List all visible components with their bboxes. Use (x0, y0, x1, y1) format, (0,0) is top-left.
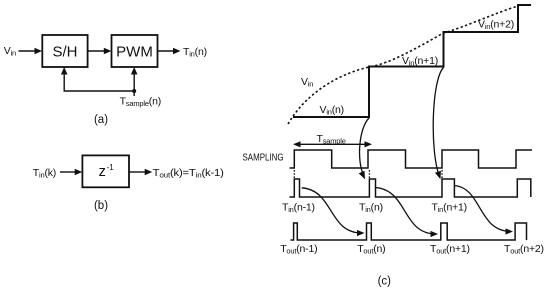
svg-text:Tin(n): Tin(n) (183, 46, 207, 59)
svg-text:(b): (b) (94, 200, 108, 212)
svg-text:Tout(n-1): Tout(n-1) (280, 243, 317, 256)
svg-text:Vin(n+1): Vin(n+1) (402, 55, 438, 68)
svg-text:Tin(n): Tin(n) (359, 202, 383, 215)
svg-text:Tin(n-1): Tin(n-1) (282, 202, 315, 215)
svg-text:Tin(n+1): Tin(n+1) (432, 202, 467, 215)
svg-text:PWM: PWM (116, 44, 153, 61)
svg-text:-1: -1 (107, 163, 115, 172)
svg-text:Tout(n+1): Tout(n+1) (430, 243, 470, 256)
svg-text:SAMPLING: SAMPLING (243, 153, 284, 164)
svg-text:S/H: S/H (52, 44, 77, 61)
svg-text:Vin(n+2): Vin(n+2) (478, 19, 514, 32)
svg-text:Vin(n): Vin(n) (320, 104, 344, 117)
svg-text:(a): (a) (94, 114, 108, 126)
svg-text:z: z (99, 164, 106, 180)
svg-text:Tin(k): Tin(k) (33, 167, 56, 180)
svg-text:(c): (c) (378, 276, 392, 288)
svg-text:Tout(n+2): Tout(n+2) (504, 243, 544, 256)
